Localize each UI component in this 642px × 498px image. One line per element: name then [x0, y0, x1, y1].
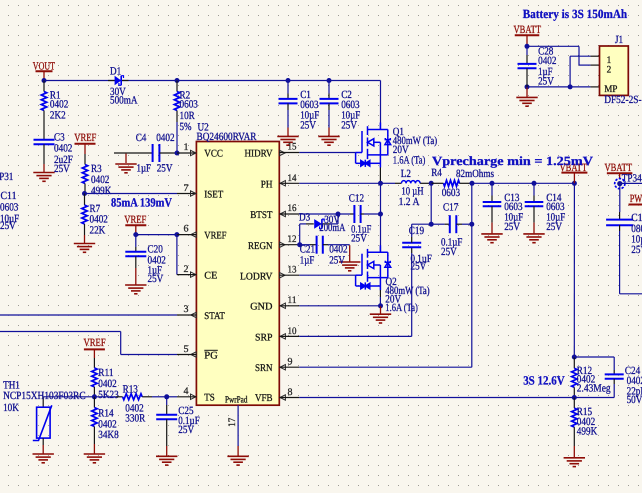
wire to Q1 drain [380, 81, 382, 130]
svg-text:Battery is 3S 150mAh: Battery is 3S 150mAh [523, 7, 628, 21]
pin 1 VCC stub [177, 152, 196, 154]
wire VFB [299, 397, 614, 399]
capacitor C2 [328, 81, 330, 94]
svg-text:PH: PH [261, 180, 273, 191]
svg-text:VOUT: VOUT [33, 60, 55, 72]
capacitor C28 [526, 46, 528, 55]
svg-text:VBATT: VBATT [514, 24, 542, 36]
power port VREF [75, 143, 96, 145]
svg-text:15: 15 [288, 142, 297, 153]
wire main VOUT rail [44, 80, 381, 82]
svg-text:8: 8 [288, 387, 293, 398]
transistor Q2 [356, 245, 391, 290]
node R12/C24 [572, 355, 577, 360]
svg-text:VFB: VFB [255, 393, 273, 404]
wire VREF stub [135, 225, 137, 234]
wire TH1 to node [43, 396, 94, 398]
resistor R11 [93, 358, 95, 368]
svg-text:25V: 25V [411, 261, 427, 273]
svg-text:NCP15XH103F03RC: NCP15XH103F03RC [3, 390, 86, 402]
wire to CE [176, 235, 178, 275]
svg-text:499K: 499K [91, 185, 111, 197]
svg-text:25V: 25V [441, 246, 457, 258]
svg-text:82mOhms: 82mOhms [456, 168, 494, 180]
svg-text:VREF: VREF [124, 214, 146, 226]
node C2 top [327, 78, 332, 83]
svg-text:13: 13 [288, 265, 297, 276]
svg-text:25V: 25V [546, 221, 562, 233]
diode D1 [108, 80, 115, 82]
Q2 drain pin [380, 247, 382, 252]
svg-text:25V: 25V [157, 163, 173, 175]
resistor R13 [94, 396, 116, 398]
svg-text:2: 2 [607, 65, 612, 76]
svg-text:VREF: VREF [204, 230, 226, 241]
capacitor C19 [411, 247, 413, 253]
wire SRP up [411, 253, 413, 336]
svg-text:25V: 25V [631, 244, 642, 256]
resistor R14 [93, 397, 95, 408]
wire GND [299, 305, 380, 307]
svg-text:TS: TS [204, 393, 215, 404]
node C1 top [286, 78, 291, 83]
svg-text:2: 2 [184, 264, 189, 275]
svg-text:C17: C17 [443, 201, 459, 213]
node VBATT [572, 181, 577, 186]
wire node A down [430, 183, 432, 224]
svg-text:SRN: SRN [255, 363, 273, 374]
capacitor C13 [491, 183, 493, 195]
capacitor C3 [34, 140, 55, 145]
svg-text:25V: 25V [0, 220, 16, 232]
node C12/PH [378, 212, 383, 217]
node C17/C19 [429, 222, 434, 227]
svg-text:1: 1 [184, 142, 189, 153]
wire J1 pin1 down [569, 56, 571, 87]
node PH [378, 181, 383, 186]
svg-text:500mA: 500mA [110, 95, 138, 107]
pin 2 CE stub [177, 274, 197, 276]
wire SRP [299, 335, 411, 337]
svg-text:LODRV: LODRV [240, 271, 273, 282]
svg-text:25V: 25V [351, 233, 367, 245]
ground C2 [318, 136, 339, 145]
power port VOUT [36, 70, 53, 72]
svg-text:5K23: 5K23 [98, 389, 119, 401]
capacitor C14 [533, 183, 535, 195]
svg-text:2K2: 2K2 [50, 110, 66, 122]
svg-text:5%: 5% [180, 121, 192, 133]
pin 12 REGN stub [279, 244, 299, 246]
svg-text:R13: R13 [123, 383, 139, 395]
node R2 top [175, 78, 180, 83]
wire HIDRV gate [299, 152, 355, 154]
resistor R12 [573, 357, 575, 368]
pin 10 SRP stub [279, 335, 299, 337]
wire MP rail [527, 86, 590, 88]
svg-text:MP: MP [604, 84, 617, 95]
svg-text:STAT: STAT [204, 311, 225, 322]
U2 pin direction arrows [191, 150, 196, 155]
svg-text:VREF: VREF [74, 132, 96, 144]
pin 7 ISET stub [177, 193, 196, 195]
capacitor C12 [350, 213, 354, 215]
svg-text:R4: R4 [431, 167, 442, 179]
wire VBATT down [573, 183, 575, 357]
svg-text:200mA: 200mA [319, 222, 345, 234]
ground C1 [277, 136, 298, 145]
pin 11 GND stub [279, 305, 299, 307]
capacitor C25 [166, 397, 168, 405]
wire off right edge [620, 293, 642, 295]
svg-text:9: 9 [288, 357, 293, 368]
svg-text:C4: C4 [136, 132, 147, 144]
resistor R1 [43, 81, 45, 92]
wire ISET [85, 193, 178, 195]
pin 13 LODRV stub [279, 274, 299, 276]
svg-text:17: 17 [227, 418, 238, 427]
svg-text:D1: D1 [110, 66, 121, 78]
svg-text:16: 16 [288, 203, 297, 214]
pin 9 SRN stub [279, 366, 299, 368]
node C17/SRN [469, 222, 474, 227]
node VOUT/R1 [42, 78, 47, 83]
wire to Q2 drain [380, 214, 382, 247]
svg-text:TP31: TP31 [0, 171, 13, 183]
ground C3 [33, 173, 54, 182]
node Q2 source/GND [378, 303, 383, 308]
transistor Q1 [356, 123, 391, 168]
node R4/SRN [470, 181, 475, 186]
svg-text:PwrPad: PwrPad [225, 396, 248, 406]
wire VREF to pin6 [136, 234, 177, 236]
node C28 bottom [525, 84, 530, 89]
svg-text:10: 10 [288, 326, 297, 337]
node VREF/C20 [133, 232, 138, 237]
svg-text:1µF: 1µF [137, 163, 152, 175]
svg-text:C12: C12 [349, 193, 364, 205]
wire pin17 [237, 405, 239, 446]
node ISET divider [82, 191, 87, 196]
svg-text:25V: 25V [178, 424, 194, 436]
svg-text:GND: GND [250, 302, 272, 313]
wire VOUT stub [43, 71, 45, 80]
wire PH [299, 182, 380, 184]
svg-text:BQ24600RVAR: BQ24600RVAR [197, 131, 258, 143]
Q1 source pin [379, 168, 381, 184]
capacitor C21 [300, 244, 310, 246]
svg-text:REGN: REGN [248, 241, 273, 252]
svg-text:6: 6 [184, 224, 189, 235]
svg-text:3S 12.6V: 3S 12.6V [523, 373, 565, 387]
svg-text:25V: 25V [54, 163, 70, 175]
svg-text:25V: 25V [148, 273, 164, 285]
svg-text:330R: 330R [125, 413, 145, 425]
resistor R4 [431, 182, 443, 184]
svg-text:0402: 0402 [156, 132, 174, 144]
svg-text:14: 14 [288, 173, 297, 184]
ground C4 [115, 164, 136, 173]
svg-text:0603: 0603 [0, 202, 19, 214]
svg-text:VREF: VREF [84, 337, 106, 349]
svg-text:D3: D3 [299, 211, 311, 223]
svg-text:25V: 25V [329, 255, 345, 267]
svg-text:1.6A (Ta): 1.6A (Ta) [393, 154, 426, 166]
pin 3 STAT stub [177, 314, 196, 316]
inductor L2 [381, 182, 396, 184]
ground C25 [156, 456, 177, 465]
resistor R2 [176, 81, 178, 92]
wire BTST [299, 213, 350, 215]
ground C20 [125, 285, 146, 294]
capacitor C24 [574, 356, 614, 358]
svg-text:499K: 499K [577, 425, 597, 437]
svg-text:HIDRV: HIDRV [245, 149, 274, 160]
wire PG c [121, 354, 177, 356]
wire VBATT stub [526, 35, 528, 46]
svg-text:ISET: ISET [204, 189, 224, 200]
wire SRN [299, 366, 472, 368]
svg-text:PG: PG [204, 350, 218, 361]
Q2 source pin [379, 290, 381, 297]
capacitor C20 [135, 235, 137, 247]
svg-text:BTST: BTST [250, 210, 273, 221]
pin 14 PH stub [279, 182, 299, 184]
capacitor C17 [431, 223, 444, 225]
test point TP34 [619, 173, 621, 179]
svg-text:0402: 0402 [54, 143, 72, 155]
svg-text:2.43Meg: 2.43Meg [577, 383, 611, 395]
wire SRN riser [471, 183, 473, 367]
power port VREF [125, 224, 146, 226]
svg-text:12: 12 [288, 234, 297, 245]
svg-text:1.6A (Ta): 1.6A (Ta) [385, 302, 418, 314]
wire to VBATT [472, 182, 574, 184]
node L2/R4 [429, 181, 434, 186]
ground R15 [564, 458, 585, 467]
ground C14 [523, 234, 544, 243]
ground C13 [481, 234, 502, 243]
svg-text:34K8: 34K8 [98, 429, 119, 441]
wire TP34 down [619, 186, 621, 212]
node VFB divider [572, 395, 577, 400]
svg-text:25V: 25V [504, 221, 520, 233]
thermistor TH1 [42, 397, 44, 407]
ground R14 [84, 454, 105, 463]
resistor R15 [573, 398, 575, 409]
node REGN [297, 242, 302, 247]
pin 16 BTST stub [279, 213, 299, 215]
power port VBATT [607, 172, 633, 174]
wire VREF stub [93, 349, 95, 358]
svg-text:C19: C19 [409, 225, 425, 237]
capacitor C15 (clipped) [619, 212, 621, 220]
svg-text:1.2 A: 1.2 A [399, 196, 420, 208]
node MP [568, 84, 573, 89]
node VREF/CE [174, 232, 179, 237]
power port VBATT [561, 172, 587, 174]
wire VREF stub [84, 144, 86, 154]
capacitor C4 [114, 152, 153, 154]
ground R7 [74, 244, 95, 253]
svg-text:11: 11 [288, 295, 297, 306]
op-amp U2 BQ24600RVAR body [196, 142, 279, 406]
resistor R3 [84, 154, 86, 165]
node D3/BTST [336, 212, 341, 217]
svg-text:0603: 0603 [442, 187, 461, 199]
pin 15 HIDRV stub [279, 152, 299, 154]
wire STAT [0, 314, 177, 316]
svg-text:25V: 25V [341, 120, 357, 132]
pin 5 PG stub [177, 354, 196, 356]
svg-text:1µF: 1µF [300, 255, 315, 267]
svg-text:VCC: VCC [204, 149, 223, 160]
svg-text:Vprecharge min = 1.25mV: Vprecharge min = 1.25mV [432, 154, 593, 168]
node C14 [532, 181, 537, 186]
resistor R7 [84, 194, 86, 206]
power port VBATT [515, 34, 540, 36]
svg-text:4: 4 [184, 386, 189, 397]
node VCC/R2 [175, 151, 180, 156]
ground PwrPad [227, 456, 248, 465]
ground C28 [516, 97, 537, 106]
wire PG b [120, 332, 122, 355]
ground C21 [339, 262, 360, 271]
svg-text:10K: 10K [3, 402, 19, 414]
svg-text:22K: 22K [90, 225, 106, 237]
node C25/TS [164, 394, 169, 399]
svg-text:25V: 25V [538, 76, 554, 88]
svg-text:SRP: SRP [255, 332, 273, 343]
wire VBATT stub [573, 173, 575, 184]
svg-text:5: 5 [184, 344, 189, 355]
wire VBATT to J1 [527, 45, 579, 47]
wire LODRV gate [299, 274, 355, 276]
J1 MP stub [590, 86, 599, 88]
svg-text:J1: J1 [615, 34, 623, 46]
svg-text:50V: 50V [627, 394, 642, 406]
ground Q2 [370, 314, 391, 323]
pin 6 VREF stub [177, 234, 197, 236]
svg-text:CE: CE [204, 271, 217, 282]
diode D3 [337, 214, 339, 224]
svg-text:C11: C11 [1, 190, 17, 202]
connector J1 [600, 46, 629, 95]
pin 4 TS stub [177, 396, 196, 398]
ground TH1 [33, 454, 54, 463]
svg-text:85mA 139mV: 85mA 139mV [111, 195, 172, 209]
node TS divider [92, 394, 97, 399]
svg-text:3: 3 [184, 304, 189, 315]
svg-text:L2: L2 [401, 168, 411, 180]
svg-text:DF52-2S-: DF52-2S- [604, 94, 642, 106]
svg-text:7: 7 [184, 183, 189, 194]
svg-text:25V: 25V [300, 120, 316, 132]
svg-text:0603: 0603 [180, 99, 199, 111]
wire PH down [380, 183, 382, 214]
svg-text:PW: PW [630, 193, 642, 205]
power port VREF [84, 348, 105, 350]
node C28 top [525, 44, 530, 49]
node C13 [490, 181, 495, 186]
capacitor C1 [287, 81, 289, 94]
pin 8 VFB stub [279, 397, 299, 399]
J1 pin 1 stub [590, 55, 599, 57]
wire PG a [0, 331, 121, 333]
J1 pin 2 stub [590, 64, 599, 66]
